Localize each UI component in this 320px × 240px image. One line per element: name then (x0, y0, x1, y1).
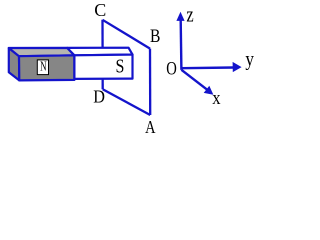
svg-text:B: B (150, 25, 160, 46)
z axis (179, 21, 182, 70)
svg-text:O: O (166, 58, 177, 79)
N label box (37, 60, 48, 75)
magnet S-pole top face (67, 48, 132, 56)
y axis arrowhead (233, 62, 242, 72)
magnet N-pole front face (19, 55, 74, 80)
magnet S-pole front face (74, 55, 132, 79)
y axis (181, 66, 233, 69)
x axis (181, 70, 207, 90)
wire top side C-B (103, 20, 151, 49)
magnet N-pole left end cap (9, 48, 19, 80)
z axis arrowhead (176, 12, 184, 21)
wire bottom side D-A (103, 89, 151, 115)
magnet N-pole top face (9, 48, 75, 56)
x axis arrowhead (204, 86, 214, 95)
wire left side C-D (passes behind magnet) (101, 20, 103, 89)
svg-text:z: z (186, 2, 194, 27)
svg-text:A: A (145, 116, 156, 137)
svg-text:D: D (93, 87, 105, 107)
svg-text:y: y (245, 48, 254, 71)
svg-text:C: C (94, 0, 106, 20)
svg-text:N: N (40, 60, 46, 74)
svg-text:S: S (115, 55, 124, 77)
svg-text:x: x (212, 87, 220, 108)
wire right side B-A (149, 49, 151, 115)
